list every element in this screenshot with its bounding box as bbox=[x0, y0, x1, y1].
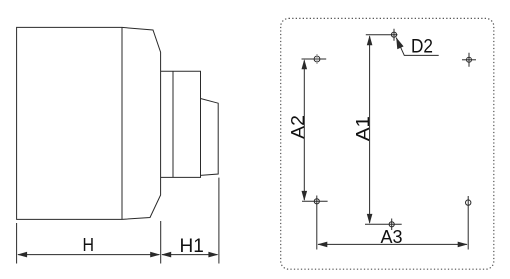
svg-text:A2: A2 bbox=[288, 115, 308, 139]
hole top-middle horizontal line bbox=[366, 34, 398, 36]
arrow H1 right bbox=[208, 252, 218, 258]
hole top-left vertical tick bbox=[316, 54, 318, 64]
hole top-right cross horizontal bbox=[462, 59, 476, 61]
svg-text:D2: D2 bbox=[411, 37, 433, 58]
hole top-left horizontal center line bbox=[302, 58, 327, 60]
dimension line A3 bbox=[318, 243, 467, 245]
svg-text:A1: A1 bbox=[353, 116, 373, 141]
hole bottom-right vertical line / A3 extension bbox=[467, 196, 469, 250]
hole bottom-middle vertical tick bbox=[391, 219, 393, 231]
arrow A1 top bbox=[367, 35, 373, 45]
flange inner edge line bbox=[172, 71, 174, 177]
extension line left (H) bbox=[16, 223, 18, 264]
svg-text:H1: H1 bbox=[180, 236, 204, 257]
body face edge line bbox=[121, 27, 123, 219]
dimension line A2 bbox=[303, 61, 305, 201]
hole bottom-left horizontal center line bbox=[302, 200, 328, 202]
svg-text:A3: A3 bbox=[380, 227, 402, 247]
extension line middle (H/H1) bbox=[160, 221, 162, 264]
leader line D2 bbox=[396, 38, 439, 56]
dimension line H bbox=[18, 254, 159, 256]
hole bottom-right circle bbox=[466, 200, 471, 205]
hole bottom-left circle bbox=[314, 199, 319, 204]
hole bottom-middle circle bbox=[389, 222, 394, 227]
hole bottom-middle horizontal line bbox=[365, 223, 402, 225]
knob outline bbox=[201, 99, 219, 176]
extension line right (H1) bbox=[218, 178, 220, 264]
arrow A2 top bbox=[302, 59, 308, 69]
flange outline bbox=[161, 71, 201, 177]
arrow D2 leader bbox=[396, 37, 403, 49]
arrow H1 left bbox=[161, 252, 171, 258]
arrow A3 left bbox=[317, 242, 327, 248]
hole top-right circle bbox=[467, 57, 472, 62]
arrow A1 bottom bbox=[367, 214, 373, 224]
hole top-middle circle bbox=[391, 32, 396, 37]
mounting plate dotted border bbox=[281, 18, 494, 269]
hole top-left circle bbox=[314, 56, 320, 62]
main body outline bbox=[17, 27, 161, 219]
arrow A2 bottom bbox=[302, 191, 308, 201]
hole top-right cross vertical bbox=[468, 53, 470, 67]
dimension line A1 bbox=[369, 36, 371, 223]
arrow H left bbox=[17, 252, 27, 258]
arrow A3 right bbox=[458, 242, 468, 248]
dimension line H1 bbox=[162, 254, 218, 256]
hole bottom-left vertical line / A3 extension bbox=[316, 196, 318, 250]
svg-text:H: H bbox=[82, 235, 94, 255]
arrow H right bbox=[150, 252, 160, 258]
hole top-middle vertical tick bbox=[393, 29, 395, 41]
